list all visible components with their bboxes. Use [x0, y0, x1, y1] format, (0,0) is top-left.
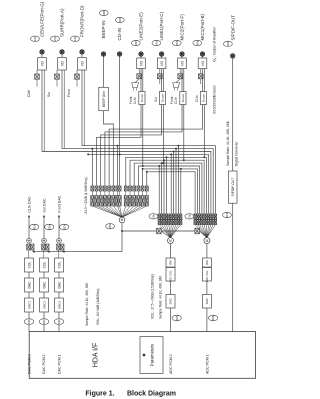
wire SRC to HDA ADC PCM 2: [170, 308, 172, 332]
wire loopback SURR port to record muxes: [62, 70, 213, 214]
svg-text:DAC: DAC: [57, 281, 61, 289]
svg-text:VOL: VOL: [57, 262, 61, 269]
wire 0Bh output down: [121, 223, 123, 252]
wire LINE2 left channel into input mixer: [97, 105, 142, 187]
volume box Sur DAC: [40, 258, 49, 272]
svg-text:Digital Converter: Digital Converter: [234, 141, 238, 166]
svg-text:I/O: I/O: [40, 61, 44, 66]
I/O amp box LINE1(Port-C): [157, 58, 166, 69]
I/O amp box MIC1(Port-B): [198, 58, 207, 69]
wire mux to record chain ADC PCM 2: [170, 244, 172, 258]
wire BEEP-IN to beep generator: [103, 56, 105, 87]
wire SRC to node oval CLfe DAC: [28, 312, 30, 318]
wire pad to I/O SURR(Port-A): [61, 54, 63, 57]
wire into HDA CLfe DAC: [28, 325, 30, 332]
svg-text:I/O: I/O: [60, 61, 64, 66]
svg-text:VOL: VOL: [27, 262, 31, 269]
wire LINE1 left channel into input mixer: [101, 105, 162, 187]
wire loopback FRONT port to record muxes: [82, 70, 216, 214]
mixer output arrow Front DAC: [58, 215, 60, 218]
svg-text:VOL: -17.5~+30dB (1.5dB/Step): VOL: -17.5~+30dB (1.5dB/Step): [151, 274, 155, 319]
node id oval 0Dh: [45, 224, 54, 230]
output enable gate MIC1(Port-B): [200, 69, 202, 74]
node id oval 06h spdif: [223, 212, 232, 218]
pin pad S/PDIF-OUT: [231, 54, 235, 58]
node id oval 1Ah for LINE1(Port-C): [152, 40, 161, 46]
node id oval 23h: [185, 213, 194, 219]
node id oval 18h for MIC1(Port-B): [193, 40, 202, 46]
node id oval 1Dh BEEP-IN: [99, 10, 108, 16]
wire pad to I/O LINE1(Port-C): [161, 56, 163, 58]
adc volume box ADC PCM 2: [166, 268, 175, 282]
selected source stub CLfe: [36, 79, 38, 86]
wire MIC2 left channel into input mixer: [105, 105, 182, 187]
svg-text:Sample Rate: 44.1K, 48K, 96K: Sample Rate: 44.1K, 48K, 96K: [85, 282, 89, 326]
svg-text:Sample Rate: 44.1K, 48K, 96K: Sample Rate: 44.1K, 48K, 96K: [159, 275, 163, 319]
svg-text:Figure 1.: Figure 1.: [85, 390, 114, 397]
output mixer sum CLfe DAC: [27, 238, 32, 243]
I/O amp box SURR(Port-A): [58, 58, 67, 71]
svg-text:CLfe: CLfe: [195, 95, 199, 102]
output mixer gates Sur DAC: [42, 244, 45, 250]
node id oval 16h for CEN/LFE(Port-G): [31, 36, 40, 42]
output select gate FRONT(Port-D): [76, 70, 78, 74]
wire into HDA Sur DAC: [43, 325, 45, 332]
svg-text:03h: 03h: [42, 319, 46, 324]
wire 0Bh to record mux gates: [121, 230, 123, 232]
node id oval 1Ch CD-IN: [115, 17, 124, 23]
svg-text:MIC2(Port-F): MIC2(Port-F): [179, 14, 184, 41]
output mixer gates Front DAC: [57, 244, 60, 250]
input mixer 0Bh volume row: [91, 191, 93, 196]
loopback tap into mixer CLfe DAC: [33, 251, 35, 253]
selected source stub Front: [76, 79, 78, 86]
record SRC box ADC PCM 2: [166, 295, 175, 309]
right channel wire MIC2(Port-F): [183, 69, 185, 92]
node id oval 09h: [172, 315, 181, 321]
svg-text:ADC VOL: ADC VOL: [169, 270, 173, 282]
dac box Front DAC: [55, 278, 64, 292]
svg-text:S/PDIF-OUT: S/PDIF-OUT: [231, 15, 236, 41]
svg-text:SRC3: SRC3: [57, 301, 61, 309]
svg-text:SRC: SRC: [205, 297, 209, 304]
svg-text:DAC PCM 3: DAC PCM 3: [28, 354, 32, 374]
wire pad to I/O CEN/LFE(Port-G): [41, 54, 43, 57]
svg-text:DAC PCM 2: DAC PCM 2: [42, 354, 46, 374]
svg-text:M: M: [206, 239, 209, 243]
HDA I/F controller box: [29, 332, 255, 379]
svg-text:M: M: [169, 239, 172, 243]
record mute box ADC PCM 2: [166, 258, 175, 267]
pin pad CEN/LFE(Port-G): [40, 50, 44, 54]
svg-text:Boost: Boost: [181, 94, 185, 102]
node id oval 1Eh S/PDIF-OUT: [224, 41, 233, 47]
svg-text:LINE2(Port-E): LINE2(Port-E): [138, 12, 143, 41]
svg-text:Boost: Boost: [140, 94, 144, 102]
pin pad BEEP-IN: [101, 52, 105, 56]
svg-text:1Ch: 1Ch: [118, 17, 122, 23]
svg-text:0/10/20/30dB boost: 0/10/20/30dB boost: [212, 85, 216, 114]
svg-text:SRC3: SRC3: [27, 301, 31, 309]
right channel wire LINE1(Port-C): [162, 69, 164, 92]
dac box CLfe DAC: [25, 278, 34, 292]
wire MIC2 right channel to mixers: [184, 105, 204, 215]
boost amp box LINE1(Port-C): [161, 69, 163, 92]
record mux 22h node: [168, 238, 174, 244]
pin pad MIC2(Port-F): [180, 52, 184, 56]
svg-text:SRC: SRC: [169, 297, 173, 304]
loopback tap into mixer Front DAC: [63, 251, 65, 253]
wire CD-IN branch to record muxes: [119, 153, 121, 155]
record mux 23h fan: [195, 225, 207, 238]
svg-text:1Eh: 1Eh: [226, 41, 230, 47]
wire 0Bh loopback to output mixers: [34, 251, 122, 253]
svg-text:VOL: VOL: [42, 262, 46, 269]
record gate of right record mux: [195, 228, 200, 234]
svg-text:Sur DAC: Sur DAC: [42, 198, 46, 213]
spdif converter label box: [228, 171, 237, 203]
svg-text:09h: 09h: [175, 315, 179, 320]
svg-text:-34.5~+12dB (1.5dB/Step): -34.5~+12dB (1.5dB/Step): [84, 177, 88, 214]
I/O amp box MIC2(Port-F): [178, 58, 187, 69]
output select gate SURR(Port-A): [56, 70, 58, 74]
wire SRC to HDA ADC PCM 1: [206, 308, 208, 332]
wire LINE1 right channel to mixers: [163, 105, 202, 215]
wire CD-IN down to input mixer: [119, 56, 121, 186]
sample rate converter box CLfe DAC: [25, 298, 34, 312]
svg-text:I/O: I/O: [201, 61, 205, 66]
svg-text:Sur: Sur: [47, 91, 51, 97]
svg-text:Sample Rate: 44.1K, 48K, 96K: Sample Rate: 44.1K, 48K, 96K: [226, 120, 230, 166]
svg-text:SURR(Port-A): SURR(Port-A): [59, 8, 64, 37]
svg-text:0Eh: 0Eh: [32, 224, 36, 230]
svg-text:02h: 02h: [57, 319, 61, 324]
wire VOL-DAC Front DAC: [58, 272, 60, 278]
wire VOL-DAC CLfe DAC: [28, 272, 30, 278]
parameters box: [140, 337, 163, 374]
svg-text:Front DAC: Front DAC: [57, 195, 61, 212]
svg-text:Front: Front: [67, 89, 71, 97]
beep generator box: [99, 87, 109, 110]
output mixer sum Front DAC: [57, 238, 62, 243]
wire to SRC ADC PCM 2: [170, 281, 172, 295]
input mixer 0Bh sum node: [119, 217, 125, 223]
retask source stub MIC1(Port-B): [200, 79, 202, 84]
record mux 23h gate row: [194, 214, 196, 219]
wire LINE2 right channel to mixers: [143, 105, 200, 215]
I/O amp box FRONT(Port-D): [78, 58, 87, 71]
record mux 22h gate row: [158, 214, 160, 219]
svg-text:DAC PCM 1: DAC PCM 1: [58, 354, 62, 374]
pin pad LINE1(Port-C): [159, 52, 163, 56]
output enable gate LINE1(Port-C): [159, 69, 161, 74]
wire pad to I/O MIC1(Port-B): [202, 56, 204, 58]
wire DAC-SRC CLfe DAC: [28, 292, 30, 298]
record mux 23h node: [204, 238, 210, 244]
svg-text:08h: 08h: [211, 315, 215, 320]
right channel wire MIC1(Port-B): [203, 69, 205, 92]
I/O amp box CEN/LFE(Port-G): [38, 58, 47, 71]
wire DAC VOL to mixer Front DAC: [57, 250, 59, 258]
output enable gate LINE2(Port-E): [138, 69, 140, 74]
output mixer sum Sur DAC: [42, 238, 47, 243]
mux input stubs MIC2(Port-F): [173, 88, 175, 91]
svg-text:S/PDIF-OUT: S/PDIF-OUT: [231, 178, 235, 197]
svg-text:CLfe: CLfe: [27, 90, 31, 97]
svg-text:23h: 23h: [187, 213, 191, 218]
I/O amp box LINE2(Port-E): [137, 58, 146, 69]
volume box Front DAC: [55, 258, 64, 272]
output mixer gates CLfe DAC: [27, 244, 30, 250]
input mixer 0Bh gate row: [91, 186, 94, 191]
node id oval 03h: [39, 319, 49, 325]
node id oval 15h for SURR(Port-A): [51, 36, 60, 42]
svg-text:1Ah: 1Ah: [155, 40, 159, 46]
svg-text:I/O: I/O: [180, 61, 184, 66]
boost amp box MIC1(Port-B): [202, 69, 204, 92]
wire SRC to node oval Sur DAC: [43, 312, 45, 318]
node id oval 0Ch: [60, 224, 69, 230]
svg-text:0Ch: 0Ch: [62, 224, 66, 230]
boost amp box LINE2(Port-E): [140, 69, 142, 92]
pin pad MIC1(Port-B): [200, 52, 204, 56]
dac box Sur DAC: [40, 278, 49, 292]
wire MIC1 left channel into input mixer: [109, 105, 202, 187]
retask source mux MIC2(Port-F): [173, 83, 180, 88]
svg-text:1Bh: 1Bh: [134, 40, 138, 46]
wire DAC-SRC Sur DAC: [43, 292, 45, 298]
wire SRC to node oval Front DAC: [58, 312, 60, 318]
svg-text:04h: 04h: [27, 319, 31, 324]
wire DAC VOL to mixer CLfe DAC: [27, 250, 29, 258]
parameters bullet: [143, 354, 146, 357]
svg-text:22h: 22h: [151, 213, 155, 218]
wire bus line into mixers k13: [146, 172, 148, 186]
wire S/PDIF-OUT vertical: [232, 58, 234, 332]
node id oval 04h: [24, 319, 34, 325]
pin pad FRONT(Port-D): [80, 50, 84, 54]
svg-text:RM: RM: [169, 260, 173, 265]
record SRC box ADC PCM 1: [202, 295, 211, 309]
svg-text:CLfe: CLfe: [133, 97, 137, 104]
retask source mux LINE2(Port-E): [132, 83, 139, 88]
svg-text:06h: 06h: [225, 212, 229, 217]
record mute box ADC PCM 1: [202, 258, 211, 267]
svg-text:0Dh: 0Dh: [47, 224, 51, 230]
svg-text:ADC VOL: ADC VOL: [205, 270, 209, 282]
node id oval 02h: [54, 319, 64, 325]
wire pad to I/O LINE2(Port-E): [140, 56, 142, 58]
svg-text:Boost: Boost: [160, 94, 164, 102]
boost amp box MIC2(Port-F): [181, 69, 183, 92]
node id oval 0Eh: [30, 224, 39, 230]
svg-text:Block Diagram: Block Diagram: [127, 390, 176, 397]
svg-text:M: M: [121, 218, 124, 222]
input mixer 0Bh summing fan: [92, 206, 122, 217]
node id oval 14h for FRONT(Port-D): [71, 36, 80, 42]
wire into HDA Front DAC: [58, 325, 60, 332]
svg-text:I/O: I/O: [139, 61, 143, 66]
wire bus line into mixers k12: [142, 169, 144, 186]
svg-text:BEEP-IN: BEEP-IN: [101, 20, 106, 38]
pin pad CD-IN: [117, 52, 121, 56]
svg-text:MIC1(Port-B): MIC1(Port-B): [200, 13, 205, 40]
wire mux to record chain ADC PCM 1: [206, 244, 208, 258]
volume box CLfe DAC: [25, 258, 34, 272]
sample rate converter box Front DAC: [55, 298, 64, 312]
wire pad to I/O FRONT(Port-D): [81, 54, 83, 57]
pin pad LINE2(Port-E): [139, 52, 143, 56]
svg-text:ADC PCM 2: ADC PCM 2: [169, 354, 173, 374]
svg-text:15h: 15h: [53, 36, 57, 41]
wire MIC1 right channel to mixers: [204, 105, 206, 215]
node id oval 0Bh: [106, 223, 115, 229]
node id oval 22h: [149, 213, 158, 219]
wire VOL-DAC Sur DAC: [43, 272, 45, 278]
wire DAC-SRC Front DAC: [58, 292, 60, 298]
svg-text:14h: 14h: [73, 36, 77, 41]
svg-text:Boost: Boost: [201, 94, 205, 102]
pin pad SURR(Port-A): [60, 50, 64, 54]
record gate of left record mux: [157, 228, 162, 234]
node id oval 19h for MIC2(Port-F): [172, 40, 181, 46]
node id oval 1Bh for LINE2(Port-E): [131, 40, 140, 46]
record mux 22h fan: [159, 225, 170, 238]
svg-text:HDA I/F: HDA I/F: [93, 343, 100, 368]
svg-text:CD-IN: CD-IN: [117, 28, 122, 40]
mixer output arrow Sur DAC: [43, 215, 45, 218]
wire beep generator into input mixer: [104, 111, 114, 186]
adc volume box ADC PCM 1: [202, 268, 211, 282]
svg-text:19h: 19h: [175, 40, 179, 45]
svg-text:SRC3: SRC3: [42, 301, 46, 309]
mixer output arrow CLfe DAC: [28, 215, 30, 218]
wire loopback CEN/LFE port to record muxes: [42, 70, 211, 214]
wire DAC VOL to mixer Sur DAC: [42, 250, 44, 258]
wire pad to I/O MIC2(Port-F): [181, 56, 183, 58]
output select gate CEN/LFE(Port-G): [36, 70, 38, 74]
svg-text:DAC: DAC: [27, 281, 31, 289]
svg-text:Parameters: Parameters: [150, 343, 155, 366]
svg-text:1Dh: 1Dh: [102, 10, 106, 16]
sample rate converter box Sur DAC: [40, 298, 49, 312]
svg-text:VOL: -64~0dB (1dB/Step): VOL: -64~0dB (1dB/Step): [96, 289, 100, 325]
svg-text:0Bh: 0Bh: [108, 223, 112, 229]
loopback tap into mixer Sur DAC: [48, 251, 50, 253]
svg-text:FRONT(Port-D): FRONT(Port-D): [79, 5, 84, 37]
svg-text:BEEP Gen: BEEP Gen: [102, 91, 106, 107]
selected source stub Sur: [56, 79, 58, 86]
svg-text:RM: RM: [205, 260, 209, 265]
svg-text:CEN/LFE(Port-G): CEN/LFE(Port-G): [39, 1, 44, 37]
svg-text:CLfe: CLfe: [174, 97, 178, 104]
right channel wire LINE2(Port-E): [142, 69, 144, 92]
svg-text:DAC: DAC: [42, 281, 46, 289]
retask source stub LINE1(Port-C): [159, 79, 161, 84]
svg-text:18h: 18h: [195, 40, 199, 45]
mux input stubs LINE2(Port-E): [132, 88, 134, 91]
svg-text:I/O: I/O: [80, 61, 84, 66]
wire to SRC ADC PCM 1: [206, 281, 208, 295]
node id oval 08h: [209, 315, 218, 321]
output enable gate MIC2(Port-F): [179, 69, 181, 74]
svg-text:16h: 16h: [33, 36, 37, 41]
svg-text:LINE1(Port-C): LINE1(Port-C): [159, 11, 164, 40]
svg-text:I/O: I/O: [160, 61, 164, 66]
svg-text:ADC PCM 1: ADC PCM 1: [205, 354, 209, 374]
svg-text:CLfe DAC: CLfe DAC: [27, 196, 31, 213]
